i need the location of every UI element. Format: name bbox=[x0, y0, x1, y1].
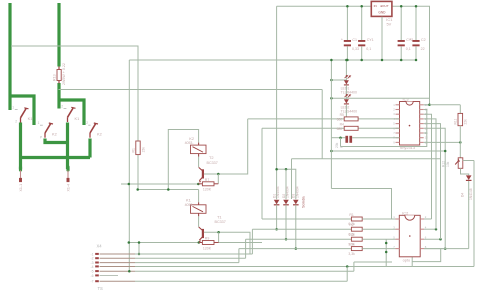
IC2 right pin 8 bbox=[420, 218, 424, 220]
svg-text:R3: R3 bbox=[349, 233, 353, 237]
svg-text:R1: R1 bbox=[131, 148, 135, 152]
svg-text:22k: 22k bbox=[464, 119, 468, 125]
relay K2 coil diagonal bbox=[193, 147, 204, 152]
diode D2 cathode bar bbox=[283, 204, 289, 206]
IC3 right pin row 16 bbox=[420, 123, 424, 125]
transistor T1 collector lead bbox=[199, 227, 203, 230]
junction C2 top bbox=[415, 5, 418, 8]
wire IC3 row12 to R11 bottom bbox=[424, 141, 461, 143]
junction GND vertical / line y242 bbox=[128, 241, 131, 244]
wire supply line Q bbox=[138, 189, 199, 191]
wire X4 pin 5 lead bbox=[100, 270, 135, 272]
wire LED column mid bbox=[345, 85, 347, 99]
svg-text:K2: K2 bbox=[97, 131, 102, 136]
wire GND rail y60 bbox=[129, 59, 416, 61]
wire x331 vertical bbox=[330, 60, 332, 189]
svg-text:2: 2 bbox=[86, 121, 88, 125]
IC2 origin mark bbox=[409, 235, 411, 237]
IC2 left pin 3 bbox=[396, 238, 400, 240]
resistor R4 body bbox=[351, 247, 362, 251]
wire R1 bottom to supply line Q bbox=[137, 155, 139, 190]
svg-text:R2: R2 bbox=[349, 223, 353, 227]
wire K2 left bottom to H1 bbox=[45, 139, 68, 143]
relay K1 coil diagonal bbox=[193, 206, 204, 211]
transistor T2 base bar bbox=[202, 169, 204, 178]
svg-text:R12: R12 bbox=[441, 161, 445, 167]
svg-text:2: 2 bbox=[61, 105, 63, 109]
wire X4 pin 2 lead bbox=[100, 257, 135, 259]
svg-text:R7: R7 bbox=[205, 178, 210, 182]
junction CY1 bottom bbox=[360, 59, 363, 62]
LED LED1 arrows bbox=[345, 76, 351, 79]
wire K2 right bottom to H2 bbox=[88, 139, 91, 158]
IC3 left pin row 8 bbox=[396, 137, 400, 139]
svg-text:1N4004: 1N4004 bbox=[286, 186, 290, 198]
wire far right vertical bbox=[473, 161, 475, 267]
junction LED column rail bbox=[345, 59, 348, 62]
resistor R2 body bbox=[351, 227, 362, 231]
wire relay K1 to T1 collector bbox=[198, 216, 200, 227]
wire T2 base net bbox=[204, 119, 248, 174]
IC2 right pin 7 bbox=[420, 228, 424, 230]
junction x386 b bbox=[385, 251, 388, 254]
svg-text:0,33: 0,33 bbox=[352, 47, 359, 51]
IC3 left pin row 6 bbox=[396, 127, 400, 129]
contact K1 left fixed tick bbox=[24, 108, 28, 109]
wire x322 vertical bbox=[321, 90, 323, 159]
wire R11 top lead bbox=[459, 105, 461, 114]
junction x139 bottom bbox=[138, 253, 141, 256]
svg-text:R13: R13 bbox=[52, 74, 56, 81]
junction GND vertical / line y184 bbox=[128, 183, 131, 186]
wire riser X4 pin2 bbox=[245, 239, 247, 258]
svg-text:0,1: 0,1 bbox=[406, 47, 411, 51]
connector X4 pin 1 pad bbox=[95, 253, 99, 255]
wire branch B1 to contact K2 left bbox=[10, 96, 34, 125]
terminal X1-1 pad bbox=[19, 178, 21, 181]
junction R11 bottom bbox=[459, 141, 462, 144]
wire C2 bottom lead bbox=[415, 46, 417, 60]
wire bottom right link bbox=[412, 266, 474, 268]
transistor T1 emitter arrow bbox=[199, 240, 201, 242]
wire emitter line y242 bbox=[129, 242, 262, 244]
relay K1 coil box bbox=[191, 205, 207, 214]
wire net from V1 via R1 top bbox=[11, 46, 138, 141]
svg-text:15k: 15k bbox=[141, 147, 145, 153]
connector X4 pin 3 pad bbox=[95, 262, 99, 264]
junction y151 / x331 bbox=[330, 150, 333, 153]
wire crystal left drop bbox=[340, 138, 342, 147]
junction CY2 bottom bbox=[400, 59, 403, 62]
wire T2 base to IC3 row bbox=[248, 118, 347, 120]
diode D1 cathode bar bbox=[274, 204, 280, 206]
wire IC2 right row3 bbox=[424, 238, 441, 240]
wire D1 anode vertical from top rail bbox=[276, 6, 278, 199]
wire IC3 pin20 stub bbox=[424, 104, 430, 106]
junction pin7 riser on pin4 row bbox=[346, 265, 349, 268]
wire R3 to IC2 bbox=[362, 238, 395, 240]
terminal X1-4 pad bbox=[67, 178, 69, 181]
crystal Q1 body bar2 bbox=[349, 136, 352, 143]
wire IC1 OUT rail down to pin20 net bbox=[392, 6, 429, 105]
junction x139 top bbox=[138, 241, 141, 244]
relay K2 coil box bbox=[191, 145, 207, 154]
wire LED column lower bbox=[345, 105, 347, 119]
IC3 right pin row 18 bbox=[420, 113, 424, 115]
svg-text:X1-1: X1-1 bbox=[19, 184, 23, 192]
IC3 notch bbox=[406, 102, 413, 106]
svg-text:GND: GND bbox=[378, 11, 386, 15]
connector X4 pin 5 pad bbox=[95, 270, 99, 272]
svg-text:C2: C2 bbox=[421, 38, 426, 42]
terminal X1-1 pin bbox=[20, 170, 22, 178]
junction right row2 bbox=[435, 228, 438, 231]
resistor R4b body bbox=[344, 126, 358, 130]
wire IC3 row19 return left bbox=[341, 110, 427, 147]
IC IC2 opto body bbox=[399, 215, 420, 256]
wire R12 to D4 bbox=[461, 168, 469, 175]
resistor R1 body bbox=[136, 141, 140, 155]
svg-text:R4: R4 bbox=[349, 243, 353, 247]
svg-text:K1: K1 bbox=[28, 116, 33, 121]
IC3 left pin row 5 bbox=[396, 123, 400, 125]
connector X4 pin 2 pad bbox=[95, 257, 99, 259]
wire C2 top lead bbox=[415, 6, 417, 40]
capacitor C2 plate2 bbox=[412, 44, 419, 46]
contact K2 left arm bbox=[45, 124, 51, 133]
wire row y239.2 to R3 bbox=[246, 238, 352, 240]
svg-text:22: 22 bbox=[421, 47, 425, 51]
svg-text:0,1: 0,1 bbox=[366, 47, 371, 51]
resistor R13 top lead bbox=[58, 67, 60, 70]
wire to relay K1 coil top bbox=[198, 190, 200, 203]
LED LED2 cathode bar bbox=[344, 103, 349, 105]
junction x386 a bbox=[385, 242, 388, 245]
contact K2 right arm bbox=[90, 124, 96, 133]
junction T1 emitter / R9 bbox=[198, 241, 201, 244]
IC2 left pin 2 bbox=[396, 228, 400, 230]
junction R1 / line Q bbox=[136, 188, 139, 191]
relay K1 top pin bbox=[198, 202, 200, 205]
wire R9 right lead riser bbox=[218, 232, 220, 242]
junction C1 top bbox=[346, 5, 349, 8]
wire C1 top lead bbox=[346, 6, 348, 40]
wire LED column upper bbox=[345, 60, 347, 80]
junction IC1 GND rail bbox=[381, 59, 384, 62]
wire IC2 right row1 bbox=[424, 218, 432, 220]
terminal X1-4 pin bbox=[67, 170, 69, 178]
trimpot R12 body bbox=[458, 158, 463, 169]
relay K2 top pin bbox=[198, 143, 200, 146]
wire x386 vertical bbox=[385, 239, 387, 266]
wire riser X4 pin1 bbox=[251, 229, 253, 254]
wire R2 to IC2 bbox=[362, 228, 395, 230]
wire y158 left drop bbox=[291, 159, 293, 199]
contact K2 right bottom pin stub bbox=[89, 133, 91, 138]
svg-text:X4: X4 bbox=[97, 244, 103, 249]
wire row y248.6 to R4 bbox=[239, 248, 352, 250]
wire D2 cathode down bbox=[285, 205, 287, 239]
svg-text:R11: R11 bbox=[454, 119, 458, 125]
wire crystal to IC3 row13 bbox=[352, 137, 399, 139]
wire mains L vertical V1 bbox=[8, 3, 11, 110]
svg-text:1: 1 bbox=[12, 106, 14, 110]
wire IC3 row14 stub bbox=[424, 132, 427, 134]
wire IC2 right row4 bbox=[424, 248, 445, 250]
wire riser X4 pin7 bbox=[346, 267, 348, 282]
resistor R1 body bbox=[351, 217, 362, 221]
pin 2 tick K1 centre bbox=[64, 108, 67, 110]
wire X4 pin 3 net bbox=[135, 262, 239, 264]
wire X4 pin 1 lead bbox=[100, 253, 135, 255]
wire IC1 GND down bbox=[381, 17, 383, 60]
junction D3 / row4 bbox=[295, 247, 298, 250]
svg-text:D4: D4 bbox=[461, 193, 465, 197]
svg-text:-7: -7 bbox=[90, 280, 93, 284]
wire top rail to IC1 IN bbox=[277, 5, 372, 7]
IC2 right pin 6 bbox=[420, 238, 424, 240]
transistor T1 emitter lead bbox=[199, 237, 202, 240]
wire CY1 top lead bbox=[361, 6, 363, 40]
wire IC3 row17 down to IC2 row2 bbox=[424, 119, 436, 229]
relay K2 bottom pin bbox=[198, 154, 200, 157]
svg-text:P: P bbox=[40, 135, 42, 139]
wire V2 lower below R13 bbox=[57, 83, 60, 109]
wire K1 centre bottom through H1 H2 to terminal bbox=[66, 123, 69, 170]
connector X4 pin 4 pad bbox=[95, 265, 99, 267]
IC3 right pin row 13 bbox=[420, 137, 424, 139]
svg-text:2: 2 bbox=[15, 120, 17, 124]
resistor R9 body bbox=[202, 241, 214, 245]
wire H2 horizontal bbox=[21, 156, 91, 159]
wire under IC2 y262 bbox=[354, 261, 392, 263]
IC2 left pin 4 bbox=[396, 248, 400, 250]
svg-text:1N4148: 1N4148 bbox=[469, 188, 473, 200]
svg-text:2W5W + 0.22: 2W5W + 0.22 bbox=[62, 63, 66, 85]
connector X4 pin 7 pad bbox=[95, 280, 99, 282]
wire C1 bottom lead bbox=[346, 46, 348, 60]
wire net line C from V2 bbox=[59, 89, 323, 91]
contact K1 left bottom pin stub bbox=[20, 118, 22, 123]
junction crystal left bbox=[339, 136, 342, 139]
wire emitter line y184 bbox=[121, 183, 198, 185]
resistor R3 body bbox=[351, 237, 362, 241]
wire row16 LED2 to IC3 bbox=[346, 127, 399, 129]
svg-text:5V: 5V bbox=[387, 22, 392, 27]
svg-text:4053-: 4053- bbox=[185, 203, 195, 207]
svg-text:4053-: 4053- bbox=[185, 141, 195, 145]
wire to relay K2 coil top bbox=[168, 130, 198, 190]
svg-text:●OUT: ●OUT bbox=[380, 4, 389, 8]
svg-text:T1: T1 bbox=[217, 214, 222, 219]
contact K2 right fixed tick bbox=[94, 123, 98, 124]
wire mains N vertical V2 upper bbox=[57, 3, 60, 67]
wire IC2 right row2 bbox=[424, 228, 436, 230]
svg-text:-4: -4 bbox=[90, 265, 93, 269]
wire GND vertical to X4 pin5 bbox=[128, 184, 130, 271]
wire IC3 row16 down to IC2 row3 bbox=[424, 124, 441, 240]
transistor T1 base bar bbox=[202, 229, 204, 238]
capacitor CY2 plate2 bbox=[398, 44, 405, 46]
junction CY1 top bbox=[360, 5, 363, 8]
contact K2 left fixed tick bbox=[49, 123, 53, 124]
capacitor CY1 plate1 bbox=[358, 40, 365, 42]
resistor R13 bottom lead bbox=[58, 81, 60, 84]
connector X4 pin 6 pad bbox=[95, 274, 99, 276]
wire X4 pin 7 lead bbox=[100, 280, 135, 282]
svg-text:IN: IN bbox=[374, 4, 377, 8]
wire CY2 bottom lead bbox=[400, 46, 402, 60]
wire riser X4 pin3 bbox=[238, 249, 240, 263]
svg-text:CY1: CY1 bbox=[367, 38, 374, 42]
junction GND / X4 pin5 bbox=[128, 270, 131, 273]
wire x331 to IC2 row1 bbox=[331, 189, 391, 220]
diode D4 cathode bar bbox=[466, 179, 472, 181]
crystal Q1 body bbox=[345, 136, 348, 143]
wire crystal left lead bbox=[331, 137, 345, 139]
capacitor CY1 plate2 bbox=[358, 44, 365, 46]
junction x331 rail bbox=[330, 59, 333, 62]
LED LED1 cathode bar bbox=[344, 84, 349, 86]
IC3 right pin row 19 bbox=[420, 109, 424, 111]
IC2 left pin 1 bbox=[396, 218, 400, 220]
diode D1 triangle bbox=[274, 200, 280, 205]
IC3 right pin row 12 bbox=[420, 141, 424, 143]
wire GND vertical x129 bbox=[128, 60, 130, 184]
wire X1-1 rounded tip bbox=[19, 167, 22, 170]
wire CY1 bottom lead bbox=[361, 46, 363, 60]
wire row y229.2 to R2 bbox=[252, 228, 351, 230]
IC3 right pin row 14 bbox=[420, 132, 424, 134]
contact K1 centre bottom pin stub bbox=[67, 117, 69, 122]
wire riser X4 pin4 to IC2 bbox=[411, 257, 413, 267]
junction +5V at x331 bbox=[330, 97, 333, 100]
junction right row4 bbox=[444, 247, 447, 250]
svg-text:R9: R9 bbox=[205, 237, 210, 241]
junction D1 bus bbox=[275, 168, 278, 171]
wire +5V over IC3 bbox=[331, 97, 429, 99]
wire branch B2 to contact K2 right bbox=[59, 100, 84, 125]
IC IC3 body bbox=[400, 102, 420, 146]
svg-text:tiny2313: tiny2313 bbox=[400, 145, 415, 150]
IC3 left pin row 1 bbox=[396, 104, 400, 106]
resistor R11 body bbox=[458, 113, 463, 125]
wire diode anode bus b bbox=[286, 169, 296, 199]
junction D2 bus bbox=[285, 168, 288, 171]
svg-text:1: 1 bbox=[38, 121, 40, 125]
resistor R13 body bbox=[57, 70, 61, 81]
IC3 right pin row 15 bbox=[420, 127, 424, 129]
wire D4 down bbox=[468, 181, 470, 249]
wire D4 to IC2 row4 bbox=[424, 248, 469, 250]
resistor R9 right lead bbox=[214, 242, 219, 244]
IC3 left pin row 4 bbox=[396, 118, 400, 120]
resistor R7 right lead bbox=[214, 183, 218, 185]
svg-text:20k: 20k bbox=[335, 142, 339, 148]
wire X1-4 rounded tip bbox=[66, 167, 69, 170]
LED LED1 triangle bbox=[344, 80, 349, 84]
wire IC3 row15 horizontal bbox=[262, 127, 346, 129]
wire relay K2 to T2 collector bbox=[198, 157, 200, 168]
junction CY2 top bbox=[400, 5, 403, 8]
wire return net y158 bbox=[292, 158, 441, 160]
wire T1 base net down to X4 pin1 row bbox=[204, 232, 250, 254]
IC3 left pin row 2 bbox=[396, 109, 400, 111]
resistor R9 left lead bbox=[199, 242, 203, 244]
resistor R5 body bbox=[344, 117, 358, 121]
contact K2 left bottom pin stub bbox=[44, 133, 46, 138]
wire K1 left bottom to H2 and terminal bbox=[19, 123, 22, 170]
wire IC3 row18 down to IC2 row1 bbox=[424, 114, 432, 219]
relay K1 bottom pin bbox=[198, 213, 200, 216]
junction T1 base / R9 bbox=[217, 231, 220, 234]
pin 1 tick K2 left bbox=[40, 124, 43, 126]
LED LED2 triangle bbox=[344, 99, 349, 103]
wire pin20 to R11 top bbox=[430, 104, 461, 106]
svg-text:X1-4: X1-4 bbox=[67, 184, 71, 192]
svg-text:120K: 120K bbox=[203, 246, 212, 250]
wire R4 to IC2 bbox=[362, 248, 395, 250]
svg-text:BC337: BC337 bbox=[215, 220, 226, 224]
svg-text:680: 680 bbox=[337, 117, 343, 121]
junction coil K2 feed / line Q bbox=[167, 188, 170, 191]
junction D2 / row3 bbox=[285, 238, 288, 241]
svg-text:1N4004: 1N4004 bbox=[295, 186, 299, 198]
svg-text:K1: K1 bbox=[75, 116, 80, 121]
IC3 origin mark bbox=[409, 125, 411, 127]
svg-text:Sonda: Sonda bbox=[301, 196, 306, 208]
wire R12 wiper right bbox=[463, 160, 474, 162]
wire X4 pin 6 stub bbox=[100, 275, 118, 277]
capacitor C2 plate1 bbox=[412, 40, 419, 42]
junction D1 / row2 bbox=[275, 228, 278, 231]
IC3 right pin row 17 bbox=[420, 118, 424, 120]
IC3 left pin row 3 bbox=[396, 113, 400, 115]
wire X4 pin 7 net bbox=[135, 280, 347, 282]
contact K1 centre arm bbox=[68, 108, 74, 117]
resistor R7 left lead bbox=[198, 183, 202, 185]
wire X4 pin 4 lead bbox=[100, 266, 135, 268]
wire X4 pin 4 net bbox=[135, 266, 412, 268]
svg-text:T2: T2 bbox=[209, 155, 214, 160]
junction C1 bottom bbox=[346, 59, 349, 62]
diode D3 triangle bbox=[293, 200, 299, 205]
wire return net y151 bbox=[331, 150, 445, 152]
svg-text:IC2: IC2 bbox=[402, 210, 408, 215]
wire IC3 row15 drop to opto row1 bbox=[261, 128, 263, 219]
junction right row3 bbox=[439, 238, 442, 241]
transistor T2 emitter lead bbox=[199, 178, 202, 181]
wire D1 cathode down bbox=[276, 205, 278, 229]
pin 2 tick K2 right bbox=[88, 124, 90, 126]
diode D4 triangle bbox=[466, 175, 472, 180]
svg-text:R1: R1 bbox=[349, 213, 353, 217]
IC IC1 regulator body bbox=[371, 1, 392, 16]
svg-text:120K: 120K bbox=[203, 188, 212, 192]
transistor T2 collector lead bbox=[199, 167, 203, 170]
svg-text:680: 680 bbox=[337, 127, 343, 131]
IC3 left pin row 9 bbox=[396, 141, 400, 143]
diode D2 triangle bbox=[283, 200, 289, 205]
wire R1 to IC2 bbox=[362, 218, 395, 220]
capacitor CY2 plate1 bbox=[398, 40, 405, 42]
junction T2 emitter / R7 bbox=[197, 183, 200, 186]
wire diode anode bus a bbox=[277, 168, 286, 170]
svg-text:TLLR4400: TLLR4400 bbox=[341, 90, 357, 94]
svg-text:K2: K2 bbox=[52, 131, 57, 136]
wire LED1 link bbox=[331, 79, 346, 81]
wire row y219 to R1 bbox=[262, 218, 351, 220]
